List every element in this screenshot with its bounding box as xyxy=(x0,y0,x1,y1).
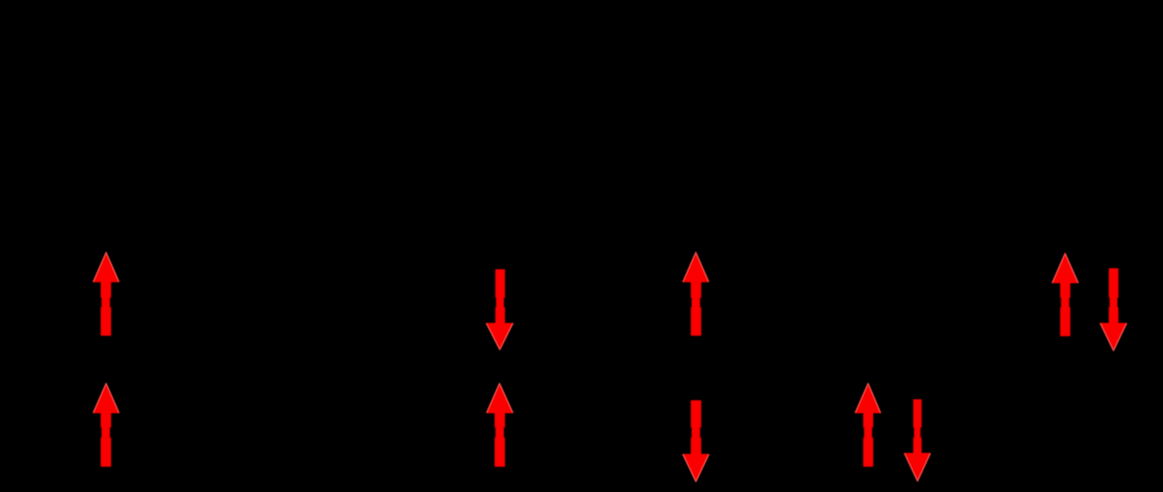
electron spin-up arrow 7 (fourth column pair, up) xyxy=(855,383,882,467)
electron spin-down arrow 3 (middle column, upper) xyxy=(486,269,514,350)
electron spin-up arrow 2 (left column, lower) xyxy=(93,383,120,467)
electron spin-down arrow 6 (third column, lower) xyxy=(682,400,709,482)
electron spin-up arrow 5 (third column, upper) xyxy=(682,252,709,336)
electron spin-up arrow 9 (right column pair, up) xyxy=(1052,253,1079,337)
electron spin-down arrow 10 (right column pair, down) xyxy=(1100,268,1128,351)
electron spin-up arrow 1 (left column, upper) xyxy=(93,252,120,336)
electron spin-down arrow 8 (fourth column pair, down) xyxy=(904,399,931,482)
electron spin-up arrow 4 (middle column, lower) xyxy=(486,383,514,467)
